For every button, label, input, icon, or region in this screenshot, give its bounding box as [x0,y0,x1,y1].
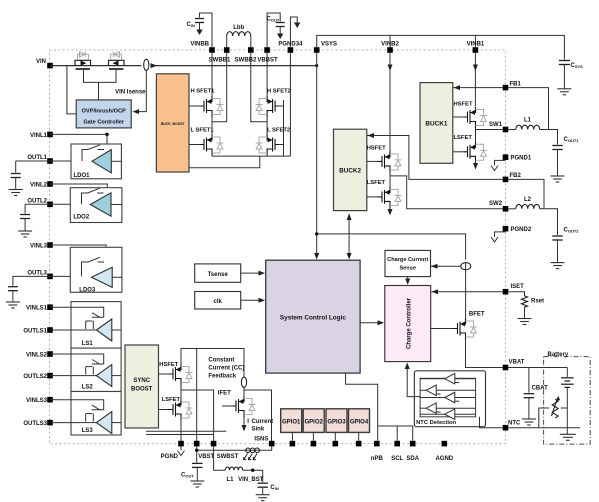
svg-text:Current (CC): Current (CC) [208,366,244,372]
svg-text:LDO3: LDO3 [79,288,96,294]
arrow BUCK2 source gnd [388,209,393,216]
arrow into BUCK2 [347,214,352,221]
switch LDO3 [82,262,89,276]
svg-text:clk: clk [214,299,223,305]
svg-text:VINB2: VINB2 [381,42,399,48]
pin VINLS1 [47,304,53,310]
wire ellipse to IFET [243,387,245,396]
comparator NTC T5 [445,409,455,420]
svg-text:CIN: CIN [187,22,195,28]
wire PGND2 arrow [495,232,506,237]
wire COUT2 gnd [557,240,559,263]
wire OUTL3 [50,275,92,277]
svg-text:ISNS: ISNS [254,437,268,443]
arrow BUCK1 source gnd [473,163,478,170]
wire SW2 route [390,176,503,209]
pin OUTLS1 [47,327,53,333]
svg-text:SW2: SW2 [489,201,503,207]
svg-text:Feedback: Feedback [208,374,236,380]
svg-text:VIN_BST: VIN_BST [238,477,264,483]
pin VINB2 [387,47,393,53]
wire VINB1 stub [474,35,476,47]
current sense ellipse IFET [241,377,246,387]
svg-text:SYNC: SYNC [133,378,150,384]
svg-text:VINLS2: VINLS2 [26,352,48,358]
pin SCL [394,441,400,447]
body diode LSFET2 [256,137,268,153]
pin OUTLS3 [47,420,53,426]
wire sync chain [180,385,182,404]
arrow thermistor [552,398,558,416]
svg-text:H SFET2: H SFET2 [267,89,291,95]
block OVP/Inrush/OCP Gate Controller [76,100,131,128]
block clk [195,292,241,310]
svg-text:LS1: LS1 [82,341,94,347]
svg-text:SDA: SDA [406,456,419,462]
wire SWBB2 down [251,53,267,122]
wire VINL3 [50,245,106,270]
arrow into controller right [133,109,140,114]
inductor Lbb [226,36,228,47]
svg-text:NTC Detection: NTC Detection [416,420,456,426]
ground CSYS [557,89,571,95]
op-amp LDO2 triangle [90,193,111,216]
svg-text:Battery: Battery [548,352,569,358]
svg-text:AGND: AGND [435,456,453,462]
wire VINB2 stub [389,35,391,47]
svg-text:VBAT: VBAT [509,360,525,366]
svg-text:VINL3: VINL3 [30,244,48,250]
wire thermistor left link [539,408,549,428]
wire BUCK1 LSFET gate [453,151,463,153]
ground OUTL2 [18,231,32,237]
svg-text:LSFET: LSFET [367,180,386,186]
pin PGND1 [503,154,509,160]
switch LS3 [92,405,100,410]
block BUCK1 [420,83,453,164]
wire OUTL2 cap [24,204,26,213]
pin VINL3 [47,242,53,248]
block Charge Controller [385,286,431,362]
junction VSYS branch [315,232,318,235]
wire VINB1 down [474,53,476,106]
wire OUTLS3 [50,422,96,424]
wire VINBB down [211,53,213,100]
wire COUT to ground [279,27,281,34]
block BUCK_BOOST [156,74,189,172]
svg-text:VIN Isense: VIN Isense [115,90,146,96]
wire VBST node rail [181,349,244,378]
wire GPIO2 stub [312,432,314,440]
svg-text:nPB: nPB [371,456,384,462]
switch LDO1 [82,150,88,162]
svg-text:OUTL3: OUTL3 [27,270,47,276]
junction VINL1 [105,133,109,137]
junction VIN_BST [251,469,254,472]
pin GPIO2pin [311,441,317,447]
wire ISET to Rset [508,292,524,296]
junction ISNS-VBST [195,449,198,452]
svg-text:PGND: PGND [161,454,179,460]
transistor BUCK2 HSFET [378,151,391,172]
wire LSFET1 source to rail [211,155,213,158]
svg-text:LS2: LS2 [82,385,94,391]
svg-text:OVP/Inrush/OCP: OVP/Inrush/OCP [82,109,126,115]
wire PGND gnd [180,446,182,450]
svg-text:SWBB2: SWBB2 [235,58,257,64]
svg-text:Charge Current: Charge Current [387,257,428,263]
arrow into SCL at BUCK2 [347,253,352,260]
svg-text:COUT: COUT [267,17,280,23]
current sense ellipse charge [461,263,471,270]
wire VINL2 [50,184,107,195]
capacitor COUT bottom [192,463,203,467]
svg-text:OUTLS2: OUTLS2 [23,374,47,380]
block NTC Detection outer [414,371,485,427]
wire Tsense arrow [241,272,261,274]
wire LDO2 out right [111,204,122,206]
wire Isense to controller [137,70,146,111]
pin OUTL1 [47,158,53,164]
svg-text:LSFET: LSFET [454,135,473,141]
wire LSFET sync source [180,421,182,444]
svg-text:BUCK1: BUCK1 [425,121,447,128]
wire PGND34 to ground [290,17,297,47]
arrow ISET into CC [432,289,439,294]
block Charge Current Sense [385,250,431,276]
ground CIN bottom [256,495,270,501]
wire VBST vertical [196,349,198,444]
svg-text:VSYS: VSYS [321,42,337,48]
wire VINLS3 [50,400,104,410]
wire VINB2 down [389,53,391,153]
ground PGND2 arrow [491,237,498,242]
battery symbol [561,378,574,388]
svg-text:Sense: Sense [399,266,415,272]
svg-text:COUT2: COUT2 [564,228,580,234]
svg-text:COUT1: COUT1 [564,137,580,143]
svg-text:CIN: CIN [270,485,278,491]
wire NTC pin into det [480,417,503,428]
svg-text:PGND1: PGND1 [511,156,532,162]
body diode BUCK2 HSFET [390,154,402,170]
pin VSYS [314,47,320,53]
junction VIN-VSYS [315,64,318,67]
transistor LSFET sync [169,400,182,421]
wire LSFET sync gate [159,409,169,411]
ground OUTL3 [6,302,20,308]
wire C-OUTL3 gnd [12,291,14,302]
block BUCK2 [334,129,367,210]
pin SWBB1 [224,47,230,53]
pin GPIO4pin [356,441,362,447]
block LS1 [71,302,121,349]
wire BUCK2 LSFET gate [367,196,378,198]
pin FB1 [503,85,509,91]
transistor LSFET2 [267,135,280,156]
pin VBBST [264,47,270,53]
wire SWBST to L1 [214,446,226,470]
wire PGND1 arrow [495,160,506,165]
wire OUTLS2 [50,375,96,377]
body diode BUCK2 LSFET [390,189,402,205]
arrow FB2 into BUCK2 [368,133,375,138]
svg-text:L1: L1 [524,118,532,124]
pin VIN [47,63,53,69]
wire sync mid to SWBST [181,390,214,444]
op-amp LDO3 triangle [92,267,113,287]
capacitor C-OUTL1 [11,174,21,178]
wire SW1 to L1 [508,129,516,131]
arrow NTCdet into CC [405,363,410,370]
wire SCL to Charge Controller [360,322,380,324]
inductor L1 boost [225,467,242,470]
svg-text:LDO2: LDO2 [73,215,90,221]
svg-text:ISET: ISET [511,284,525,290]
op-amp LS2 triangle [96,365,111,387]
block LDO1 [71,144,121,179]
wire SW2 to L2 [508,208,516,210]
arrow I current sink [242,425,247,432]
wire LSFET2 right lead [280,144,284,146]
wire LDO1 out right [111,160,121,162]
svg-text:LS3: LS3 [82,428,94,434]
op-amp LDO1 triangle [92,150,111,173]
block GPIO1 [281,409,302,433]
svg-text:OUTLS1: OUTLS1 [23,328,47,334]
body diode HSFET sync [181,367,193,383]
wire VSYS to BFET drain [465,262,467,320]
wire OUTL2 [50,203,90,205]
svg-text:PGND2: PGND2 [511,227,532,233]
wire BUCK2 LSFET source [389,208,391,212]
switch LS1 [92,313,100,318]
pin PGND34 [288,47,294,53]
svg-text:LSFET: LSFET [162,397,181,403]
wire LDO3 out right [112,276,122,278]
svg-text:VINBB: VINBB [190,42,209,48]
pin VINLS3 [47,397,53,403]
block NTC Detection inner [420,378,476,417]
wire IFET source sink [243,417,245,427]
wire C-OUTL1 gnd [15,178,17,190]
block GPIO3 [326,409,347,433]
wire CBAT drop [528,368,530,393]
wire BUCK1 LSFET source [475,163,477,166]
wire BFET source to VBAT [466,340,503,368]
capacitor COUT1 [552,146,563,150]
wire VINBB to CIN [200,13,213,47]
ground COUT2 [551,263,565,269]
arrow Tsense [259,271,266,276]
transistor BUCK1 HSFET [463,107,476,128]
pin PGND [178,441,184,447]
transistor HSFET1 [200,96,213,117]
block GPIO4 [349,409,370,433]
svg-text:SWBST: SWBST [217,454,239,460]
wire GPIO1 stub [291,432,293,440]
wire bridge bottom rail [212,155,290,157]
svg-text:Sink: Sink [252,427,265,433]
wire ISET to CC [432,291,503,293]
wire COUT1 gnd [557,150,559,177]
svg-text:IFET: IFET [218,391,231,397]
pin VINL2 [47,181,53,187]
body diode HSFET2 [256,99,268,115]
wire OUTL3 capline [13,276,50,285]
svg-text:GPIO1: GPIO1 [282,419,301,425]
wire COUT bottom gnd [196,467,198,481]
wire ISNS sense [244,390,272,444]
comparator NTC T2 [426,385,436,396]
current sense ellipse VIN [144,59,149,70]
transistor BUCK2 LSFET [378,187,391,208]
wire nPB-SCL-SDA rail [378,426,413,441]
svg-text:Lbb: Lbb [233,25,244,31]
svg-text:VINL1: VINL1 [30,133,48,139]
ground COUT1 [551,176,565,182]
svg-text:VINL2: VINL2 [30,183,48,189]
arrow VINB1 [473,65,478,72]
wire clk arrow [241,299,261,301]
wire VINL1 [50,133,107,135]
wire CBAT gnd [528,398,530,419]
wire gates to controller [98,82,100,100]
svg-text:Current: Current [252,419,274,425]
wire bridge lower rail [189,156,260,168]
capacitor COUT2 [552,236,563,240]
arrow into CCS [431,264,438,269]
wire OUTL2 capline [25,203,50,205]
pin ISNS [269,441,275,447]
wire VINL1 into LDO1 [106,134,108,152]
pin PGND2 [503,226,509,232]
wire LS1 out right [112,329,121,331]
comparator NTC T4 [426,403,436,414]
pin OUTLS2 [47,373,53,379]
pin SWBB2 [248,47,254,53]
ground PGND arrow [178,451,185,456]
wire bridge right vertical [283,100,285,156]
wire BUCK2 HSFET gate [367,160,378,162]
arrow CCS-CC [405,279,410,286]
resistor Rset [522,296,528,307]
pin nPB [374,441,380,447]
transistor IFET [232,396,245,417]
wire VBBST to COUT [267,13,280,47]
ground PGND1 arrow [491,166,498,171]
op-amp LS1 triangle [96,319,111,341]
arrow VIN rail [151,63,158,68]
svg-text:BFET: BFET [469,312,485,318]
wire thermistor right link [561,407,568,409]
svg-text:GPIO4: GPIO4 [350,419,369,425]
svg-text:CBAT: CBAT [532,385,549,391]
ground CBAT [522,419,536,425]
capacitor C-OUTL3 [8,287,18,291]
block LDO2 [70,188,122,223]
comparator NTC T1 [445,373,455,384]
inductor L2 buck [516,204,540,208]
wire ISNS to VBST node [197,446,272,450]
block Tsense [195,264,241,282]
wire HSFET1 gate [189,105,200,107]
arrow into SCL at VSYS [314,253,319,260]
wire SCL pin drop [396,426,398,441]
pin OUTL3 [47,274,53,280]
ground COUT bottom [190,481,204,487]
wire NTC line [508,427,580,429]
wire PGND34 down [289,53,291,156]
svg-text:H SFET1: H SFET1 [191,89,216,95]
ground Rset [518,319,532,325]
wire VBST to COUT [196,446,198,462]
op-amp LS3 triangle [96,412,111,434]
block LS3 [71,392,121,436]
chip boundary (dashed) [50,50,506,444]
capacitor CSYS [559,61,570,65]
svg-text:NTC: NTC [508,421,521,427]
svg-text:PGND34: PGND34 [278,42,303,48]
block LS2 [71,348,121,391]
wire L1 to CIN bottom [243,470,263,482]
wire OUTL1 [50,160,92,162]
transistor BFET [453,319,466,340]
ground OUTL1 [9,190,23,196]
wire FB2 ext [508,179,544,208]
wire GPIO3 stub [334,432,336,440]
svg-text:FB1: FB1 [510,81,522,87]
wire VBAT rail [508,367,567,369]
wire LS3 out right [112,422,121,424]
wire ellipse to CCS [431,265,461,267]
wire VSYS branch to BFET [317,234,466,260]
arrow into Charge Controller [378,320,385,325]
svg-text:BUCK2: BUCK2 [339,168,361,175]
pin VINL1 [47,132,53,138]
svg-text:BOOST: BOOST [131,387,153,393]
block LDO3 [70,247,122,292]
wire battery to thermistor node [566,387,568,408]
wire FB1 ext [508,88,548,130]
wire VIN rail after sense [151,65,317,67]
switch LDO2 [82,193,88,204]
svg-text:VIN: VIN [36,59,46,65]
wire L1 to COUT1 [540,130,558,145]
pin SWBST [211,441,217,447]
svg-text:VBST: VBST [198,454,214,460]
svg-text:L SFET1: L SFET1 [191,128,215,134]
block GPIO2 [303,409,324,433]
svg-text:OUTL1: OUTL1 [27,155,47,161]
wire OUTL1 capline [16,160,50,162]
svg-text:Constant: Constant [208,358,234,364]
wire NTC det to CC [407,367,420,397]
svg-text:Rset: Rset [531,299,544,305]
wire IFET gate [222,405,232,407]
pin SW2 [503,206,509,212]
pin VINLS2 [47,351,53,357]
wire VIN rail [50,65,142,67]
wire L2 to COUT2 [540,209,558,235]
svg-text:BUCK_BOOST: BUCK_BOOST [161,122,186,126]
block System Control Logic [266,260,360,373]
switch LS2 [92,360,100,365]
sense resistor ISNS loops [246,448,260,453]
wire C-OUTL2 gnd [24,219,26,232]
wire BFET ellipse bottom [465,269,467,271]
ground battery [560,434,576,440]
